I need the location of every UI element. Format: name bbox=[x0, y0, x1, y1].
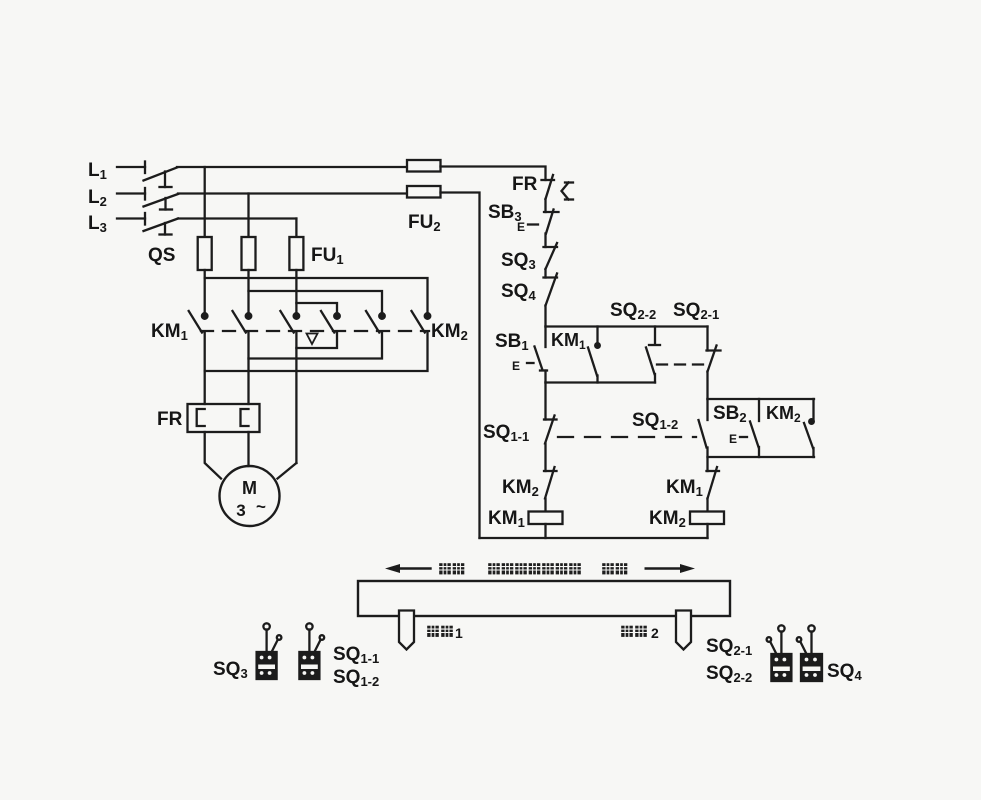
FR heater element 1 bbox=[197, 409, 205, 426]
contactor KM1 aux NO bbox=[588, 327, 600, 383]
contactor KM2 aux NO bbox=[804, 399, 814, 457]
text 向右 bbox=[602, 563, 614, 574]
wire rail1 to coil KM1 bbox=[544, 499, 546, 512]
wire L2 drop to FU1-2 bbox=[247, 194, 249, 238]
linkage dashed SQ2-2 to SQ2-1 bbox=[657, 363, 705, 365]
contactor KM2 main contact 6 bbox=[412, 311, 431, 333]
text 向左 bbox=[439, 563, 451, 574]
fuse FU1-1 bbox=[198, 237, 212, 270]
pushbutton SB1 NO bbox=[527, 327, 547, 371]
wire L3 drop to FU1-3 bbox=[295, 219, 297, 238]
pushbutton SB2 NO bbox=[740, 399, 759, 457]
linkage dashed line main contacts bbox=[201, 330, 429, 332]
wire fuse2 bottom to contact2 bbox=[247, 270, 249, 314]
wire bus output W bbox=[296, 333, 337, 349]
wire bus phase A bbox=[205, 278, 428, 314]
svg-text:QS: QS bbox=[148, 245, 175, 266]
contactor KM1 main contact 2 bbox=[233, 311, 252, 333]
fuse FU2 lower bbox=[407, 186, 441, 198]
wire rail1 to SQ1-1 bbox=[544, 383, 546, 420]
limit switch box SQ3 bbox=[257, 623, 282, 679]
wire FR to motor lead V bbox=[247, 432, 249, 466]
svg-text:FR: FR bbox=[157, 409, 183, 430]
contactor KM1 main contact 3 bbox=[280, 311, 299, 333]
wire contact1 bottom down bbox=[204, 333, 206, 405]
svg-text:M: M bbox=[242, 478, 257, 498]
wire branch2 group bottom bus bbox=[708, 456, 815, 458]
wire FU2 upper to control rail bbox=[441, 167, 546, 181]
wire node bus branch top bbox=[546, 325, 708, 327]
arrow right bbox=[646, 564, 695, 573]
wire rail SQ4 to node bus bbox=[544, 306, 546, 327]
wire FU2 lower to left rail bbox=[441, 193, 480, 539]
contactor KM1 main contact 1 bbox=[189, 311, 208, 333]
worktable rectangle bbox=[358, 581, 730, 616]
FR heater element 2 bbox=[241, 409, 249, 426]
wire L1 drop to FU1-1 bbox=[204, 167, 206, 237]
limit switch SQ4 NC bbox=[544, 274, 558, 306]
wire group1 bottom bus bbox=[546, 381, 656, 383]
label 挡铁2 bbox=[621, 626, 633, 637]
wire rail SQ3 to SQ4 bbox=[544, 269, 546, 278]
limit switch box SQ2 bbox=[767, 625, 792, 681]
wire L1 horizontal to FU2 bbox=[177, 166, 407, 168]
switch QS pole L1 bbox=[117, 162, 177, 188]
switch QS pole L3 bbox=[117, 213, 178, 235]
wire rail FR to SB3 bbox=[544, 199, 546, 212]
limit switch SQ2-1 NC bbox=[707, 327, 721, 400]
wire fuse3 bottom to contact3 bbox=[295, 270, 297, 314]
fuse FU1-2 bbox=[242, 237, 256, 270]
svg-text:E: E bbox=[517, 220, 525, 234]
svg-text:E: E bbox=[512, 359, 520, 373]
limit switch SQ2-2 NO bbox=[646, 327, 660, 383]
linkage dashed SQ1-1 to SQ1-2 bbox=[558, 436, 696, 438]
wire bottom bus bbox=[480, 537, 708, 539]
limit switch SQ3 NC bbox=[544, 243, 558, 269]
pushbutton SB3 NC bbox=[528, 210, 559, 234]
wire contact2 bottom down bbox=[247, 333, 249, 405]
label 挡铁1 bbox=[427, 626, 439, 637]
wire rail2 coil to bottom bus bbox=[706, 524, 708, 538]
svg-text:E: E bbox=[729, 432, 737, 446]
coil KM2 bbox=[690, 512, 724, 525]
wire rail1 SQ1-1 to KM2 NC bbox=[544, 444, 546, 472]
wire rail2 to coil KM2 bbox=[706, 499, 708, 512]
arrow left bbox=[385, 564, 431, 573]
svg-text:~: ~ bbox=[256, 497, 266, 516]
fuse FU2 upper bbox=[407, 160, 441, 172]
fuse FU1-3 bbox=[289, 237, 303, 270]
wire contact3 bottom down to motor lead W bbox=[295, 333, 297, 464]
contactor KM2 NC interlock bbox=[544, 467, 557, 499]
linkage mark triangle bbox=[307, 334, 318, 345]
wire rail SB3 to SQ3 bbox=[544, 234, 546, 248]
thermal relay FR box bbox=[188, 404, 260, 432]
wire bus phase B bbox=[249, 291, 383, 314]
contactor KM2 main contact 4 bbox=[321, 311, 340, 333]
svg-text:2: 2 bbox=[651, 625, 659, 641]
wire rail1 coil to bottom bus bbox=[544, 524, 546, 538]
contactor KM2 main contact 5 bbox=[366, 311, 385, 333]
contactor KM1 NC interlock bbox=[707, 467, 720, 499]
switch QS pole L2 bbox=[117, 188, 178, 210]
svg-text:1: 1 bbox=[455, 625, 463, 641]
limit switch SQ1-1 NC bbox=[544, 416, 557, 444]
wire branch2 group top bus bbox=[708, 398, 815, 400]
svg-text:FR: FR bbox=[512, 174, 538, 195]
wire bus output U bbox=[205, 333, 428, 372]
limit switch box SQ4 bbox=[797, 625, 822, 681]
wire bus output V bbox=[249, 333, 383, 359]
limit switch SQ1-2 NO bbox=[699, 399, 708, 471]
wire bus phase C bbox=[296, 303, 337, 314]
wire rail SB1 bottom bbox=[544, 371, 546, 383]
text 工作台运动方向 bbox=[488, 563, 500, 574]
dog 1 bbox=[399, 611, 414, 650]
limit switch box SQ1 bbox=[299, 623, 324, 679]
wire L2 horizontal to FU2 bbox=[178, 192, 407, 194]
wire L3 horizontal bbox=[178, 217, 296, 219]
contact FR NC control bbox=[542, 175, 574, 200]
dog 2 bbox=[676, 611, 691, 650]
motor M circle bbox=[220, 466, 280, 526]
wire fuse1 bottom to contact1 bbox=[204, 270, 206, 314]
svg-text:3: 3 bbox=[236, 501, 245, 520]
coil KM1 bbox=[529, 512, 563, 525]
wire to motor lead W diagonal bbox=[278, 463, 297, 479]
wire FR to motor lead U bbox=[205, 432, 221, 479]
